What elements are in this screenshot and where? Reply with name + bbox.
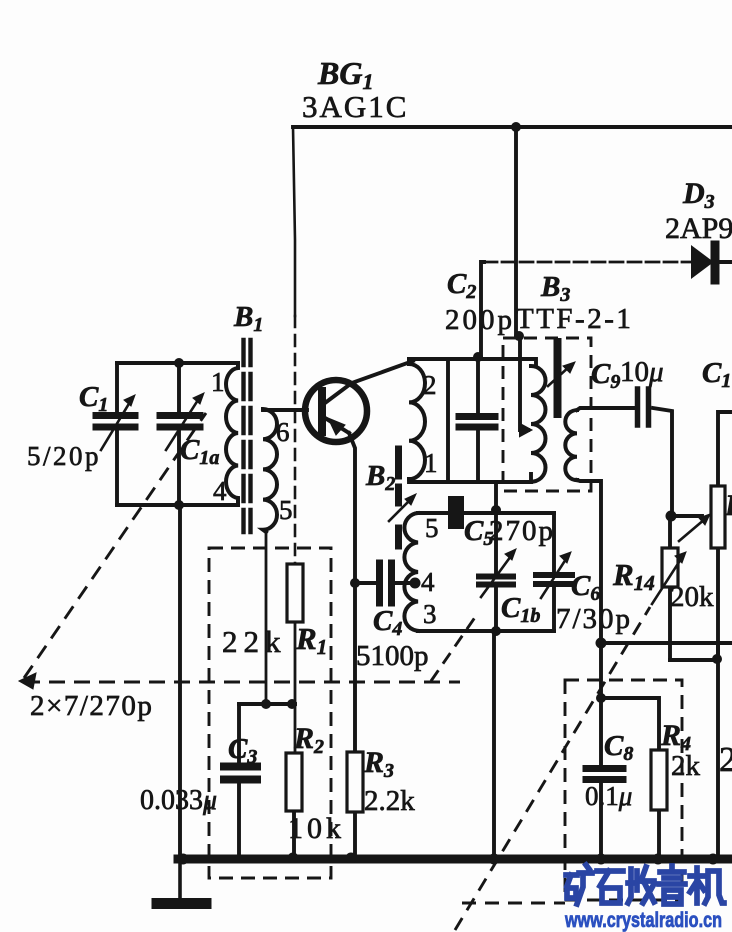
svg-text:1: 1 [424,448,438,478]
wire after diode to right edge [719,260,732,264]
svg-text:0.1μ: 0.1μ [585,781,632,811]
wire base divider horizontal [239,702,295,706]
wire pot top lead to right edge [718,412,732,486]
svg-text:B2: B2 [365,460,395,495]
dashed shield box around C8 R4 [565,680,682,900]
wire C1 tank left / C1 plates stem [115,363,119,505]
node bus C8 [596,854,607,865]
wire AVC line to right edge [601,641,732,645]
capacitor C9 electrolytic plates [635,389,641,425]
node C8 R4 [596,693,606,703]
svg-text:3: 3 [423,599,437,629]
resistor R1 22k [287,564,303,622]
svg-text:0.033μ: 0.033μ [140,785,217,816]
wire C9 to right drop [653,408,672,516]
transformer B2 core bar [395,449,402,546]
dashed gang bottom horizontal [462,902,565,905]
svg-text:4: 4 [421,567,435,597]
dashed gang diagonal to C1b [431,613,478,681]
resistor R4 2k [651,750,667,810]
wire top supply rail [293,125,732,129]
svg-text:2×7/270p: 2×7/270p [30,690,153,722]
wire detector branch up [481,262,484,357]
capacitor C1a variable plates [160,412,200,419]
wire rail drop to B3 tap [514,127,518,336]
svg-text:2k: 2k [671,750,701,782]
svg-text:3AG1C: 3AG1C [302,89,408,124]
node bus osc [489,854,500,865]
node bus R2 [288,853,299,864]
resistor R14 20k [662,548,678,587]
node AVC [596,638,607,649]
svg-text:C1: C1 [702,357,731,392]
ground symbol [157,898,206,909]
resistor R2 10k [286,753,302,811]
capacitor C6 arrow [541,559,566,598]
transformer B1 secondary winding pins 6-5 [263,409,277,532]
dashed gang line horizontal [24,681,460,684]
wire left rail drop to R1 [293,127,295,316]
svg-text:C1a: C1a [180,434,219,469]
capacitor C1 arrow [101,402,130,450]
node base divider left [261,699,271,709]
wire C4 emitter tap [355,581,418,585]
wire R4 bottom lead [657,810,661,858]
svg-text:1: 1 [211,367,225,397]
wire parallel branch x448 [446,359,450,482]
svg-text:5100p: 5100p [356,640,429,672]
transformer B2 solid core block [448,496,464,529]
transformer B2 core adjust arrow [389,498,412,521]
node C1 tank top [174,358,184,368]
capacitor C1a arrow [166,400,198,450]
wire R14 top lead [668,516,672,548]
dashed gang diagonal bottom right to R14 [455,607,650,930]
svg-text:R2: R2 [293,722,324,758]
wire osc tank bottom [418,629,554,633]
node collector line [473,352,483,362]
capacitor C4 plates [376,563,383,603]
transistor BG1 base bar [318,391,326,432]
capacitor C3 plates [224,763,257,771]
resistor R14 wiper arrow [652,559,681,604]
transformer B2 lower winding pins 5-4-3 [404,513,418,631]
capacitor C6 trimmer plates [536,572,572,578]
svg-text:TTF-2-1: TTF-2-1 [516,303,633,335]
wire oscillator feedback bottom [409,474,531,482]
potentiometer right edge body [711,486,725,548]
wire emitter below R3 [353,812,357,858]
node bus R3 [346,853,357,864]
resistor R3 2.2k [347,752,363,812]
svg-text:C4: C4 [373,605,402,640]
svg-text:5: 5 [279,495,293,525]
watermark logo character kuang [566,865,592,904]
svg-text:5: 5 [425,513,439,543]
svg-text:4: 4 [213,476,227,506]
svg-text:270p: 270p [489,515,555,547]
svg-text:B1: B1 [233,301,263,336]
capacitor C2 plates [459,413,495,420]
wire B3 primary tap feed [520,338,528,430]
svg-text:22k: 22k [222,624,287,659]
wire C1 tank bottom [117,503,238,507]
svg-text:2: 2 [423,370,437,400]
wire C3 bottom stem [237,783,241,858]
watermark logo character yin [659,866,685,904]
dashed gang line left diagonal to C1a [24,413,206,678]
capacitor C8 plates [586,765,623,772]
transformer B2 upper winding pins 2-1 [409,359,425,479]
svg-text:C6: C6 [571,570,600,605]
svg-text:10μ: 10μ [620,356,664,388]
node base divider right [287,699,297,709]
capacitor C1 variable plates [96,412,135,419]
wire main left ground drop [178,505,182,858]
svg-text:C1b: C1b [501,592,540,627]
wire C2 branch lower [476,430,480,482]
potentiometer wiper arrow [679,519,705,541]
dashed shield box around R1 R2 C3 [209,548,331,878]
svg-text:R: R [724,489,732,522]
node C1 tank bottom [174,500,184,510]
wire osc tank right / C6 stem [552,513,556,631]
transformer B1 primary winding pins 1-4 [226,363,238,505]
transformer B3 core adjust arrow [548,366,570,386]
wire B3 secondary bottom drop [577,480,601,765]
wire B1 secondary pin5 drop [265,530,268,704]
wire osc tank bottom drop to bus [492,631,496,858]
wire B3 secondary top to C9 [577,408,634,410]
wire R14 bottom lead [668,587,672,660]
wire base from B1 secondary [263,408,307,412]
node C4 emitter tap [350,578,360,588]
node bus left end [178,854,189,865]
transformer B3 primary tap blob [520,424,531,436]
gang line left arrowhead [19,673,36,689]
wire C2 branch upper [476,357,480,413]
svg-text:10k: 10k [288,812,345,845]
svg-text:C2: C2 [447,268,476,303]
node osc tank bottom [491,626,501,636]
node B3 box top [514,331,524,341]
svg-text:20k: 20k [670,581,714,613]
node bus R4 [653,854,664,865]
svg-text:7/30p: 7/30p [556,603,632,635]
wire C1 tank top [117,361,238,365]
svg-text:R1: R1 [295,621,327,659]
svg-text:R14: R14 [612,557,655,595]
wire R2 bottom lead [292,811,296,858]
svg-text:D3: D3 [682,177,715,213]
wire collector node horizontal [409,359,536,366]
svg-text:5/20p: 5/20p [27,441,101,471]
svg-text:6: 6 [276,417,290,447]
wire wiper node horizontal [672,514,702,518]
node wiper [666,511,677,522]
watermark logo character shi [597,871,623,903]
wire to diode D3 (broken scan) [484,261,690,264]
node osc tank top [491,505,501,515]
watermark logo character shou [628,867,654,903]
svg-text:C3: C3 [228,733,257,768]
ground bus bar [178,855,732,864]
wire stub osc tank top to feedback [494,482,498,510]
svg-text:200p: 200p [445,304,515,336]
capacitor C1b arrow [481,556,511,597]
transistor BG1 body [305,380,367,442]
transformer B3 secondary winding [565,410,577,480]
wire osc tank top [418,511,554,515]
wire R1 to R2 junction [294,622,297,753]
node top rail junction [511,122,521,132]
transistor BG1 collector stroke [325,385,349,403]
svg-text:B3: B3 [540,271,570,306]
svg-text:R3: R3 [363,746,394,782]
transistor BG1 emitter stroke with arrow [325,418,349,433]
transformer B1 core [241,340,245,532]
svg-text:C8: C8 [604,730,633,765]
dashed shield box B3 TTF-2-1 [503,338,591,491]
wire C8 to R4 link [601,698,659,750]
node bus right [708,854,719,865]
wire emitter drop to ground bus [349,433,355,752]
capacitor C1b variable plates [479,574,513,580]
transformer B3 core bar [554,342,562,414]
svg-text:2AP9: 2AP9 [665,212,732,245]
svg-text:2.2k: 2.2k [364,785,415,817]
node B2 pin4 tap [410,578,421,589]
wire C1b stem [494,510,498,631]
svg-text:C1: C1 [79,381,108,416]
svg-text:www.crystalradio.cn: www.crystalradio.cn [564,909,722,932]
wire C8 bottom stem [599,783,603,858]
node pot bottom [712,654,722,664]
wire R14 to pot bottom [670,643,718,660]
wire pot bottom lead [716,548,720,858]
wire collector diagonal [349,361,413,384]
svg-text:2: 2 [719,740,732,779]
diode D3 2AP9 [692,247,712,277]
wire C1a stem [177,363,181,505]
watermark logo character ji [690,868,724,903]
svg-text:C9: C9 [591,358,620,393]
wire C3 top lead [237,704,241,763]
transformer B3 primary winding [531,366,546,482]
